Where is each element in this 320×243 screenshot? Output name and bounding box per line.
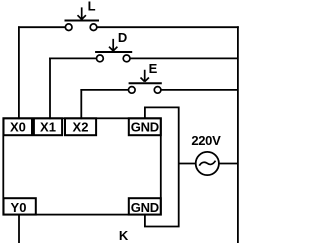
wire D row right: [130, 57, 238, 59]
wire AC source right to rail: [219, 163, 238, 165]
wire K loop GND-top to GND-bottom: [145, 107, 179, 226]
terminal X1: [34, 118, 62, 135]
bridge bar L: [65, 20, 100, 22]
svg-text:Y0: Y0: [11, 200, 27, 215]
svg-text:X1: X1: [40, 119, 56, 134]
wire E row left: [80, 89, 128, 91]
contact circle E left: [129, 87, 136, 94]
contact circle D left: [97, 55, 104, 62]
wire D row left: [49, 57, 96, 59]
terminal Y0: [4, 198, 36, 214]
svg-text:X0: X0: [10, 119, 26, 134]
contact circle L right: [90, 24, 97, 31]
svg-text:220V: 220V: [191, 133, 221, 148]
svg-text:E: E: [149, 61, 158, 76]
terminal GND bottom: [129, 198, 161, 214]
pushbutton E: [129, 70, 162, 94]
wire Y0 output down: [18, 215, 20, 243]
svg-text:GND: GND: [131, 200, 159, 215]
actuator arrow D: [109, 39, 117, 51]
wire E rail to X2: [80, 89, 82, 119]
AC source 220V: [196, 152, 219, 175]
svg-text:X2: X2: [73, 119, 89, 134]
terminal GND top: [129, 118, 161, 135]
bridge bar D: [95, 51, 132, 53]
wire tap to AC source left: [179, 163, 196, 165]
actuator arrow E: [141, 70, 149, 82]
svg-text:D: D: [118, 30, 127, 45]
pushbutton D: [95, 39, 132, 62]
contact circle L left: [65, 24, 72, 31]
wire L row right: [97, 26, 239, 28]
terminal X2: [65, 118, 96, 135]
wire E row right: [161, 89, 238, 91]
bridge bar E: [129, 82, 162, 84]
wire L row left: [18, 26, 65, 28]
AC source circle: [196, 152, 219, 175]
contact circle D right: [123, 55, 130, 62]
pushbutton L: [65, 7, 100, 30]
wire right rail: [237, 26, 239, 243]
svg-text:K: K: [119, 228, 129, 243]
svg-text:GND: GND: [131, 119, 159, 134]
svg-text:L: L: [88, 0, 96, 14]
contact circle E right: [154, 87, 161, 94]
actuator arrow L: [78, 7, 86, 19]
AC sine symbol: [199, 161, 215, 166]
wire left rail to X0: [18, 26, 20, 119]
wire D rail to X1: [49, 58, 51, 120]
PLC box: [3, 118, 161, 214]
terminal X0: [4, 118, 33, 135]
